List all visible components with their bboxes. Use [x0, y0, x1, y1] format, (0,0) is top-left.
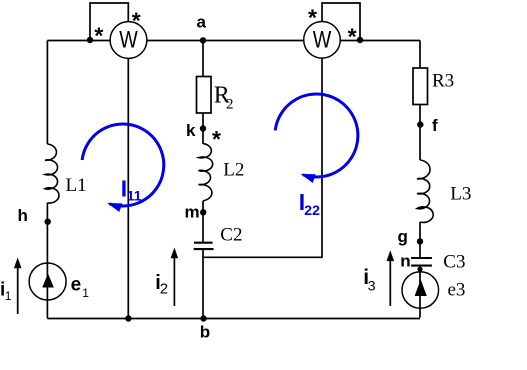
wattmeter W2	[304, 22, 341, 59]
svg-text:1: 1	[82, 286, 89, 300]
wire a to R2	[202, 41, 204, 77]
current arrow i3	[389, 260, 391, 306]
node dot W1 left	[87, 37, 93, 43]
node b	[200, 315, 206, 321]
node f	[417, 121, 423, 127]
node k	[200, 125, 206, 131]
svg-text:b: b	[200, 323, 210, 342]
svg-text:k: k	[186, 121, 196, 140]
svg-text:W: W	[313, 26, 332, 53]
node dot W2 right	[357, 37, 363, 43]
wire m to C2	[202, 201, 204, 243]
svg-text:f: f	[432, 116, 438, 135]
svg-text:C2: C2	[220, 225, 242, 246]
source e3	[402, 272, 439, 309]
svg-text:2: 2	[160, 281, 168, 298]
svg-text:e3: e3	[448, 279, 466, 300]
resistor R2	[197, 77, 212, 114]
svg-text:L3: L3	[450, 184, 471, 205]
wire top right corner to R3	[419, 41, 421, 69]
svg-text:R3: R3	[432, 71, 454, 92]
wire left vertical h to e1 to bottom	[46, 203, 48, 319]
wire L3 to g to C3	[419, 222, 421, 258]
node n	[417, 267, 422, 272]
svg-text:C3: C3	[443, 252, 465, 273]
svg-text:a: a	[197, 13, 207, 32]
svg-text:*: *	[212, 126, 221, 152]
svg-text:L2: L2	[223, 160, 244, 181]
wire C3 to n to e3 to bottom	[419, 266, 421, 318]
svg-text:1: 1	[5, 289, 12, 303]
mesh current arrow I22	[275, 94, 358, 177]
svg-text:n: n	[400, 252, 410, 271]
inductor L3	[417, 160, 433, 222]
mesh current arrow I11	[82, 124, 164, 206]
inductor L1	[45, 144, 59, 203]
node g	[417, 238, 423, 244]
wire left vertical top	[46, 41, 48, 145]
inductor L2	[199, 144, 213, 201]
junction dot W1 wire at bottom bus	[125, 315, 131, 321]
svg-text:m: m	[185, 203, 200, 222]
wattmeter W1	[110, 22, 147, 59]
svg-text:*: *	[94, 22, 103, 48]
svg-text:2: 2	[226, 97, 234, 113]
wire bottom bus b	[47, 318, 420, 320]
node h	[45, 219, 51, 225]
wire C2 branch to W2 coil	[203, 58, 322, 257]
wire W2 bridge	[322, 3, 360, 40]
resistor R3	[413, 68, 428, 105]
capacitor C2	[194, 243, 214, 249]
wire top bus a	[47, 40, 420, 42]
svg-text:g: g	[398, 227, 408, 246]
wire C2 to b	[202, 249, 204, 319]
node a	[200, 37, 206, 43]
source e1	[29, 263, 66, 300]
svg-text:L1: L1	[66, 175, 87, 196]
wire R3 to f to L3	[419, 105, 421, 161]
wire W1 voltage coil down	[127, 59, 129, 319]
current arrow i1	[17, 266, 19, 314]
wire R2 to k to L2	[202, 113, 204, 144]
wire W1 bridge	[90, 3, 128, 40]
capacitor C3	[411, 258, 432, 266]
svg-text:e: e	[71, 275, 82, 296]
svg-text:h: h	[18, 206, 28, 225]
svg-text:*: *	[132, 8, 141, 34]
svg-text:22: 22	[304, 202, 320, 218]
svg-text:*: *	[348, 23, 357, 49]
svg-text:11: 11	[127, 187, 142, 203]
svg-text:*: *	[308, 4, 317, 30]
svg-text:3: 3	[368, 277, 376, 293]
node m	[200, 209, 206, 215]
current arrow i2	[173, 257, 175, 306]
